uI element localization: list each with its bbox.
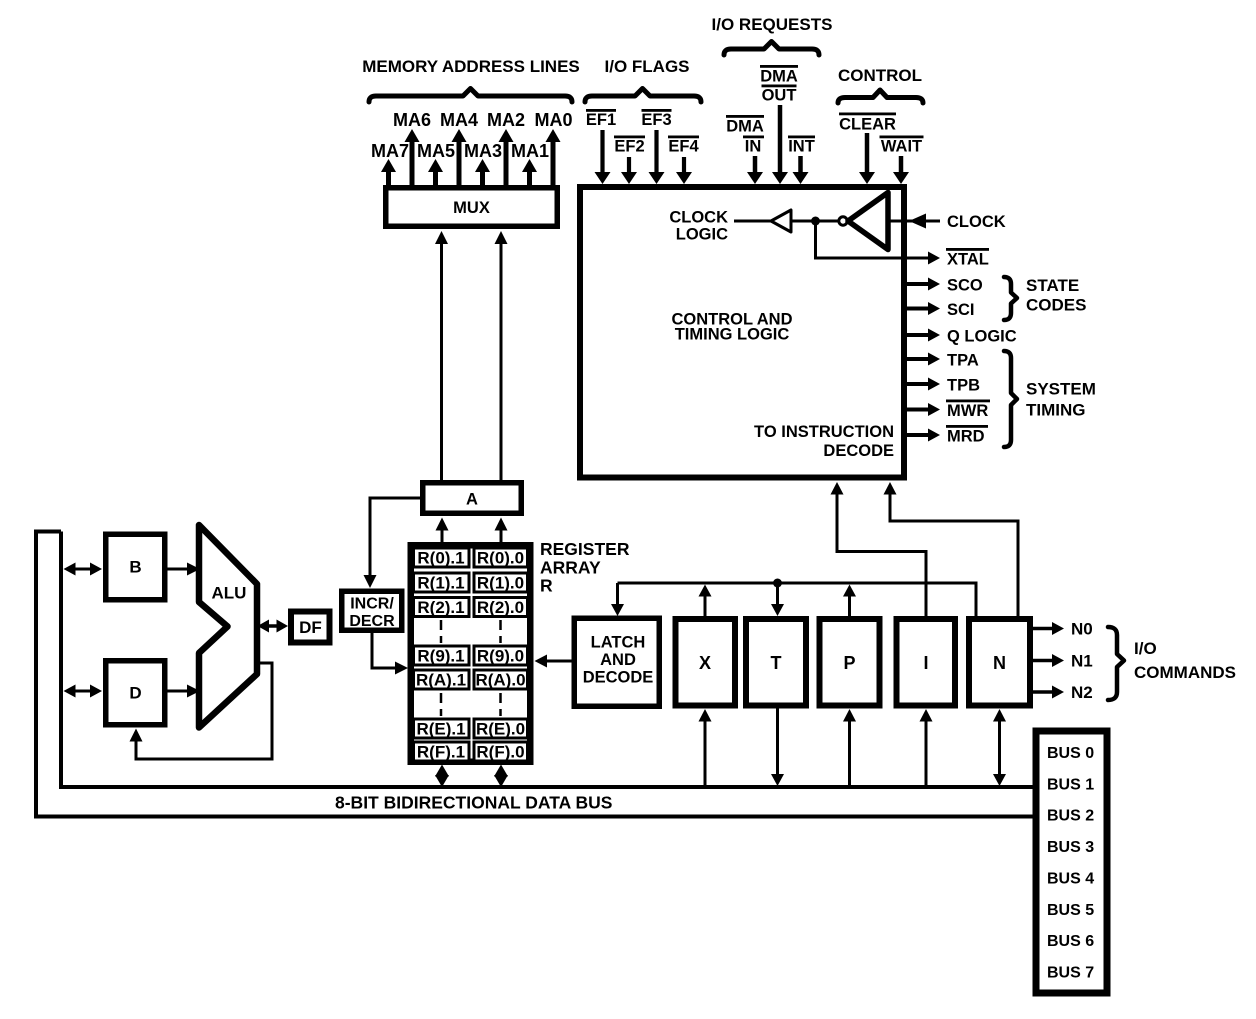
block LATCH AND DECODE (574, 618, 659, 706)
svg-text:R(9).1: R(9).1 (417, 647, 464, 666)
register R(1).1 (414, 573, 470, 592)
wire XTAL output (816, 221, 941, 265)
wire N0 output arrow (1033, 622, 1064, 635)
node CLEAR (839, 113, 896, 134)
block BUS 0-7 (1036, 731, 1107, 993)
register T (746, 619, 806, 706)
wire T to bus arrow (771, 709, 784, 787)
svg-text:R(9).0: R(9).0 (477, 647, 524, 666)
wire EF4 input arrow (676, 157, 692, 184)
svg-text:R(A).0: R(A).0 (475, 671, 525, 690)
wire array to bus right double arrow (494, 765, 508, 788)
register R(A).0 (474, 670, 528, 689)
wire ellipsis dashes upper (440, 620, 443, 643)
svg-text:ALU: ALU (212, 584, 247, 603)
svg-text:I/O REQUESTS: I/O REQUESTS (712, 15, 833, 34)
svg-text:LATCH: LATCH (591, 634, 646, 652)
svg-text:R(0).1: R(0).1 (417, 549, 464, 568)
wire left data bus inner (61, 532, 1033, 788)
wire T down arrow (771, 583, 784, 616)
wire B to ALU arrow (168, 563, 201, 576)
wire MA3 output arrow (475, 159, 490, 187)
wire CLOCK input with arrow (888, 214, 940, 229)
brace io requests (724, 42, 819, 56)
svg-text:CLOCK: CLOCK (669, 209, 728, 227)
svg-text:SYSTEM: SYSTEM (1026, 380, 1096, 399)
wire MA7 output arrow (381, 159, 396, 187)
register R(F).1 (414, 742, 470, 761)
svg-text:I: I (923, 653, 928, 673)
node WAIT (880, 136, 924, 156)
wire ellipsis dashes lower (440, 693, 443, 716)
svg-text:N1: N1 (1071, 652, 1093, 671)
brace io commands (1108, 627, 1124, 700)
svg-text:ARRAY: ARRAY (540, 558, 601, 578)
wire MA1 output arrow (522, 159, 537, 187)
wire DMA OUT input arrow (772, 105, 788, 184)
svg-text:EF2: EF2 (614, 138, 644, 156)
svg-text:D: D (129, 684, 141, 703)
node MRD (946, 425, 988, 446)
svg-text:MA1: MA1 (511, 141, 549, 161)
svg-text:N: N (993, 653, 1006, 673)
register P (820, 619, 880, 706)
register R(2).0 (474, 598, 528, 617)
wire P up arrow (843, 585, 856, 617)
svg-text:REGISTER: REGISTER (540, 539, 630, 559)
svg-text:R(F).1: R(F).1 (417, 743, 465, 762)
svg-text:R(2).1: R(2).1 (417, 598, 464, 617)
wire MUX to A left line with arrow (435, 231, 448, 480)
svg-text:T: T (771, 653, 782, 673)
svg-text:P: P (843, 653, 855, 673)
wire N2 output arrow (1033, 686, 1064, 699)
node EF3 (641, 109, 671, 129)
svg-text:R(2).0: R(2).0 (477, 598, 524, 617)
wire select distribution line (618, 583, 977, 616)
wire array to bus left double arrow (435, 765, 449, 788)
wire array to A right arrow (495, 518, 508, 543)
wire bus to B double arrow (64, 563, 103, 576)
wire MUX to A right line with arrow (495, 231, 508, 480)
register R(9).0 (474, 646, 528, 665)
svg-text:MA4: MA4 (440, 110, 478, 130)
wire I to instruction decode (831, 482, 927, 616)
wire EF2 input arrow (621, 157, 637, 184)
svg-text:MEMORY ADDRESS LINES: MEMORY ADDRESS LINES (362, 57, 580, 76)
svg-text:MA2: MA2 (487, 110, 525, 130)
wire EF1 input arrow (595, 130, 611, 184)
wire MA0 output arrow (546, 129, 561, 187)
brace control (838, 90, 923, 103)
svg-text:MRD: MRD (947, 428, 985, 446)
wire ALU feedback to D (130, 663, 273, 759)
wire EF3 input arrow (649, 130, 665, 184)
wire N1 output arrow (1033, 654, 1064, 667)
inverter bubble (839, 217, 847, 225)
svg-text:WAIT: WAIT (881, 138, 922, 156)
svg-text:R(1).1: R(1).1 (417, 574, 464, 593)
register D (106, 661, 165, 725)
svg-text:DECR: DECR (349, 613, 395, 630)
wire MWR output arrow (904, 403, 940, 416)
wire latch to array arrow (535, 655, 572, 668)
svg-text:A: A (466, 491, 478, 509)
node DMA IN (726, 115, 764, 156)
svg-text:N2: N2 (1071, 683, 1093, 702)
svg-text:CONTROL: CONTROL (838, 66, 922, 85)
svg-text:TIMING LOGIC: TIMING LOGIC (675, 326, 790, 344)
register I (897, 619, 956, 706)
svg-text:AND: AND (600, 651, 636, 669)
wire MA5 output arrow (428, 159, 443, 187)
wire X from bus arrow (699, 709, 712, 787)
buffer small clock buffer (771, 210, 791, 232)
register R(0).0 (474, 548, 528, 567)
register B (106, 534, 165, 600)
alu ALU (199, 525, 257, 728)
brace memory address lines (369, 89, 572, 103)
wire SCO output arrow (904, 278, 940, 291)
svg-text:EF4: EF4 (668, 138, 699, 156)
svg-text:R(F).0: R(F).0 (476, 743, 524, 762)
wire INT input arrow (793, 156, 809, 184)
inverter clock input inverter (848, 193, 888, 250)
svg-text:BUS 0: BUS 0 (1047, 745, 1094, 762)
brace system timing (1004, 351, 1017, 447)
svg-text:MA7: MA7 (371, 141, 409, 161)
svg-text:TPA: TPA (947, 352, 979, 370)
svg-text:INCR/: INCR/ (350, 596, 394, 613)
svg-text:STATE: STATE (1026, 276, 1079, 295)
svg-text:R: R (540, 576, 553, 596)
wire MA6 output arrow (405, 129, 420, 187)
svg-text:SCO: SCO (947, 277, 983, 295)
svg-text:I/O: I/O (1134, 639, 1157, 658)
wire N to instruction decode (884, 482, 1019, 616)
node EF2 (614, 136, 645, 156)
register R(9).1 (414, 646, 470, 665)
wire buffer to inverter (791, 220, 839, 223)
wire MRD output arrow (904, 429, 940, 442)
svg-text:R(0).0: R(0).0 (477, 549, 524, 568)
svg-text:MA3: MA3 (464, 141, 502, 161)
node select junction dot (773, 579, 782, 588)
svg-text:MWR: MWR (947, 402, 988, 420)
wire I from bus arrow (920, 709, 933, 787)
svg-text:X: X (699, 653, 711, 673)
wire Q LOGIC output arrow (904, 329, 940, 342)
wire left data bus outer (36, 532, 1033, 817)
svg-text:DMA: DMA (760, 68, 798, 86)
wire MA4 output arrow (452, 129, 467, 187)
svg-text:R(1).0: R(1).0 (477, 574, 524, 593)
svg-text:DECODE: DECODE (583, 669, 654, 687)
register R(A).1 (414, 670, 470, 689)
wire ALU to DF double arrow (258, 620, 289, 633)
register R(0).1 (414, 548, 470, 567)
node INT (788, 136, 815, 156)
svg-text:R(A).1: R(A).1 (416, 671, 466, 690)
wire SCI output arrow (904, 302, 940, 315)
wire bus to D double arrow (64, 685, 103, 698)
svg-text:BUS 2: BUS 2 (1047, 808, 1094, 825)
wire WAIT input arrow (893, 156, 909, 184)
svg-text:CLEAR: CLEAR (839, 116, 896, 134)
svg-text:BUS 4: BUS 4 (1047, 871, 1094, 888)
svg-text:MUX: MUX (453, 199, 490, 217)
svg-text:SCI: SCI (947, 301, 975, 319)
svg-text:R(E).0: R(E).0 (476, 720, 525, 739)
svg-text:TPB: TPB (947, 377, 980, 395)
svg-text:OUT: OUT (762, 87, 797, 105)
svg-text:DMA: DMA (726, 118, 764, 136)
wire P from bus arrow (843, 709, 856, 787)
svg-text:BUS 3: BUS 3 (1047, 839, 1094, 856)
svg-text:BUS 7: BUS 7 (1047, 965, 1094, 982)
svg-text:EF3: EF3 (641, 111, 671, 129)
svg-text:B: B (129, 558, 141, 577)
register R(1).0 (474, 573, 528, 592)
svg-text:INT: INT (788, 138, 815, 156)
svg-text:BUS 6: BUS 6 (1047, 933, 1094, 950)
svg-text:N0: N0 (1071, 620, 1093, 639)
svg-text:TIMING: TIMING (1026, 401, 1086, 420)
brace state codes (1004, 277, 1017, 320)
svg-text:CODES: CODES (1026, 296, 1086, 315)
wire bus top connector (34, 530, 61, 534)
node DMA OUT (760, 65, 798, 105)
svg-text:XTAL: XTAL (947, 251, 989, 269)
block INCR/DECR (342, 591, 402, 630)
wire array to A left arrow (436, 518, 449, 543)
svg-text:Q LOGIC: Q LOGIC (947, 328, 1017, 346)
block MUX (386, 188, 558, 227)
svg-text:I/O FLAGS: I/O FLAGS (605, 57, 690, 76)
svg-text:LOGIC: LOGIC (676, 226, 728, 244)
wire INCR/DECR to register array (372, 633, 408, 675)
svg-text:MA5: MA5 (417, 141, 455, 161)
node MWR (946, 400, 990, 421)
wire N bus double arrow (993, 709, 1006, 786)
wire DMA IN input arrow (747, 156, 763, 184)
register R(E).1 (414, 719, 470, 738)
svg-text:DECODE: DECODE (823, 442, 894, 460)
node EF4 (668, 136, 699, 156)
brace io flags (585, 89, 701, 103)
svg-text:DF: DF (299, 618, 322, 637)
svg-text:8-BIT BIDIRECTIONAL DATA BUS: 8-BIT BIDIRECTIONAL DATA BUS (335, 793, 612, 813)
svg-text:R(E).1: R(E).1 (416, 720, 465, 739)
wire X up arrow (699, 585, 712, 617)
register R(E).0 (474, 719, 528, 738)
node EF1 (586, 109, 616, 129)
wire A to INCR/DECR (364, 498, 421, 588)
svg-text:BUS 1: BUS 1 (1047, 777, 1094, 794)
register N (969, 619, 1030, 706)
svg-text:EF1: EF1 (586, 111, 616, 129)
wire to LATCH arrow (611, 583, 624, 616)
register DF (291, 612, 330, 643)
register R(2).1 (414, 598, 470, 617)
node clock junction (811, 217, 820, 226)
wire D to ALU arrow (168, 685, 201, 698)
svg-text:TO INSTRUCTION: TO INSTRUCTION (754, 423, 894, 441)
svg-text:MA0: MA0 (534, 110, 572, 130)
wire clock logic lead (734, 220, 771, 223)
wire TPB output arrow (904, 378, 940, 391)
wire TPA output arrow (904, 353, 940, 366)
wire CLEAR input arrow (859, 133, 875, 184)
svg-text:COMMANDS: COMMANDS (1134, 663, 1236, 682)
svg-text:IN: IN (745, 138, 762, 156)
register R(F).0 (474, 742, 528, 761)
svg-text:CLOCK: CLOCK (947, 213, 1006, 231)
wire MA2 output arrow (499, 129, 514, 187)
node XTAL (946, 248, 989, 269)
register X (676, 619, 736, 706)
svg-text:BUS 5: BUS 5 (1047, 902, 1094, 919)
block register array R (411, 545, 531, 762)
svg-text:MA6: MA6 (393, 110, 431, 130)
block CONTROL AND TIMING LOGIC U1 (580, 187, 904, 478)
register A (423, 483, 522, 514)
